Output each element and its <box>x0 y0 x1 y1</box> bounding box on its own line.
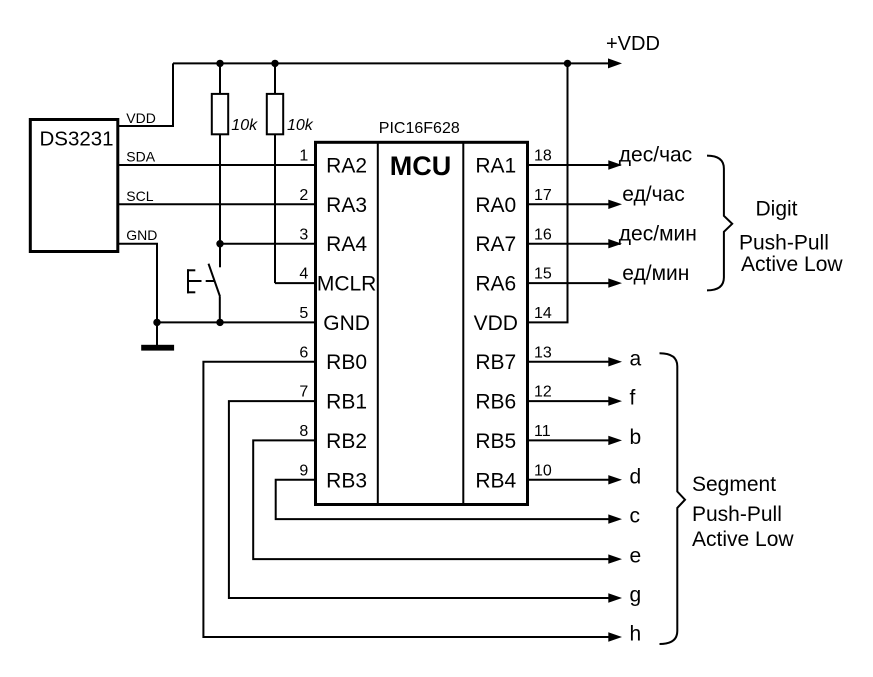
svg-text:RA2: RA2 <box>326 155 367 178</box>
svg-text:9: 9 <box>299 462 308 479</box>
svg-text:ед/час: ед/час <box>622 183 684 206</box>
wire R2 to MCLR pin 4 <box>275 282 316 284</box>
wire RB2 output e <box>253 440 609 559</box>
svg-text:f: f <box>630 387 636 410</box>
svg-text:Digit: Digit <box>756 197 798 220</box>
svg-text:DS3231: DS3231 <box>40 128 114 151</box>
svg-text:SCL: SCL <box>126 188 153 204</box>
junction dot switch / GND rail <box>216 319 223 326</box>
svg-text:6: 6 <box>299 344 308 361</box>
svg-text:c: c <box>630 505 641 528</box>
svg-text:3: 3 <box>299 226 308 243</box>
IC U2 DS3231 box <box>30 120 118 252</box>
svg-text:5: 5 <box>299 305 308 322</box>
svg-text:RB2: RB2 <box>326 430 367 453</box>
wire RA7 output <box>528 243 610 245</box>
svg-text:RB6: RB6 <box>475 391 516 414</box>
wire +VDD rail <box>173 62 609 64</box>
svg-text:10: 10 <box>534 462 552 479</box>
svg-text:14: 14 <box>534 305 552 322</box>
svg-text:Segment: Segment <box>692 473 776 496</box>
svg-text:RA6: RA6 <box>475 273 516 296</box>
svg-text:12: 12 <box>534 384 552 401</box>
wire RA4 pin 3 <box>220 243 316 245</box>
wire SCL to pin 2 <box>118 203 316 205</box>
junction dot top rail / MCU VDD branch <box>564 60 571 67</box>
svg-text:RB3: RB3 <box>326 469 367 492</box>
svg-text:VDD: VDD <box>474 312 518 335</box>
wire RB6 output f <box>528 400 610 402</box>
wire RA6 output <box>528 282 610 284</box>
svg-text:h: h <box>630 623 642 646</box>
brace digit group <box>707 156 732 291</box>
svg-text:Push-Pull: Push-Pull <box>739 232 829 255</box>
wire GND rail to pin 5 <box>157 321 316 323</box>
brace segment group <box>660 353 686 644</box>
wire RB4 output d <box>528 479 610 481</box>
svg-text:RA7: RA7 <box>475 233 516 256</box>
svg-text:g: g <box>630 584 642 607</box>
junction dot GND / ground <box>153 319 160 326</box>
wire RB5 output b <box>528 439 610 441</box>
svg-text:RB0: RB0 <box>326 351 367 374</box>
svg-text:RB7: RB7 <box>475 351 516 374</box>
wire RA1 output <box>528 164 610 166</box>
svg-text:13: 13 <box>534 344 552 361</box>
U1 left divider <box>377 142 379 504</box>
svg-text:17: 17 <box>534 187 552 204</box>
wire RB0 output h <box>203 362 609 637</box>
junction dot top rail / R2 <box>271 60 278 67</box>
ground <box>156 322 158 345</box>
svg-text:RB1: RB1 <box>326 391 367 414</box>
svg-text:16: 16 <box>534 226 552 243</box>
svg-text:VDD: VDD <box>126 110 156 126</box>
U1 left pin numbers <box>299 148 308 480</box>
wire SDA to pin 1 <box>118 164 316 166</box>
svg-text:ед/мин: ед/мин <box>622 262 689 285</box>
svg-text:SDA: SDA <box>126 149 155 165</box>
svg-text:Push-Pull: Push-Pull <box>692 503 782 526</box>
svg-text:8: 8 <box>299 423 308 440</box>
svg-text:4: 4 <box>299 266 308 283</box>
svg-text:10k: 10k <box>231 117 258 134</box>
wire DS3231 GND down <box>118 244 157 323</box>
wire RB3 output c <box>276 480 610 519</box>
wire RA0 output <box>528 203 610 205</box>
resistor R1 10k <box>219 63 221 94</box>
U1 right pin numbers <box>534 148 552 480</box>
svg-text:RA0: RA0 <box>475 194 516 217</box>
svg-text:GND: GND <box>323 312 370 335</box>
svg-text:7: 7 <box>299 384 308 401</box>
arrow +VDD <box>608 58 622 68</box>
wire MCU VDD pin 14 to rail <box>528 63 568 322</box>
svg-text:10k: 10k <box>287 117 314 134</box>
resistor R2 10k <box>274 63 276 94</box>
wire DS3231 VDD to +VDD rail <box>118 63 173 126</box>
svg-text:Active Low: Active Low <box>741 253 843 276</box>
switch S1 push-button <box>187 244 220 323</box>
svg-text:MCU: MCU <box>390 151 452 181</box>
svg-text:1: 1 <box>299 148 308 165</box>
svg-text:дес/мин: дес/мин <box>619 222 697 245</box>
svg-text:GND: GND <box>126 227 157 243</box>
svg-text:дес/час: дес/час <box>619 144 692 167</box>
svg-text:+VDD: +VDD <box>606 33 660 55</box>
svg-text:e: e <box>630 545 642 568</box>
svg-text:MCLR: MCLR <box>317 273 377 296</box>
svg-text:RA3: RA3 <box>326 194 367 217</box>
svg-text:RA4: RA4 <box>326 233 367 256</box>
U1 right pin names <box>474 155 518 493</box>
svg-text:PIC16F628: PIC16F628 <box>379 120 460 137</box>
svg-text:2: 2 <box>299 187 308 204</box>
U1 left pin names <box>317 155 377 493</box>
wire RB7 output a <box>528 361 610 363</box>
svg-text:RA1: RA1 <box>475 155 516 178</box>
svg-text:d: d <box>630 465 642 488</box>
wire RB1 output g <box>229 401 610 598</box>
svg-text:b: b <box>630 426 642 449</box>
svg-text:Active Low: Active Low <box>692 528 794 551</box>
svg-text:RB5: RB5 <box>475 430 516 453</box>
IC U1 MCU box <box>316 142 528 504</box>
svg-text:a: a <box>630 347 642 370</box>
svg-text:RB4: RB4 <box>475 469 516 492</box>
U1 right divider <box>462 142 464 504</box>
junction dot R1 / RA4 <box>216 240 223 247</box>
svg-text:18: 18 <box>534 148 552 165</box>
svg-text:11: 11 <box>534 423 551 440</box>
junction dot top rail / R1 <box>216 60 223 67</box>
svg-text:15: 15 <box>534 266 552 283</box>
